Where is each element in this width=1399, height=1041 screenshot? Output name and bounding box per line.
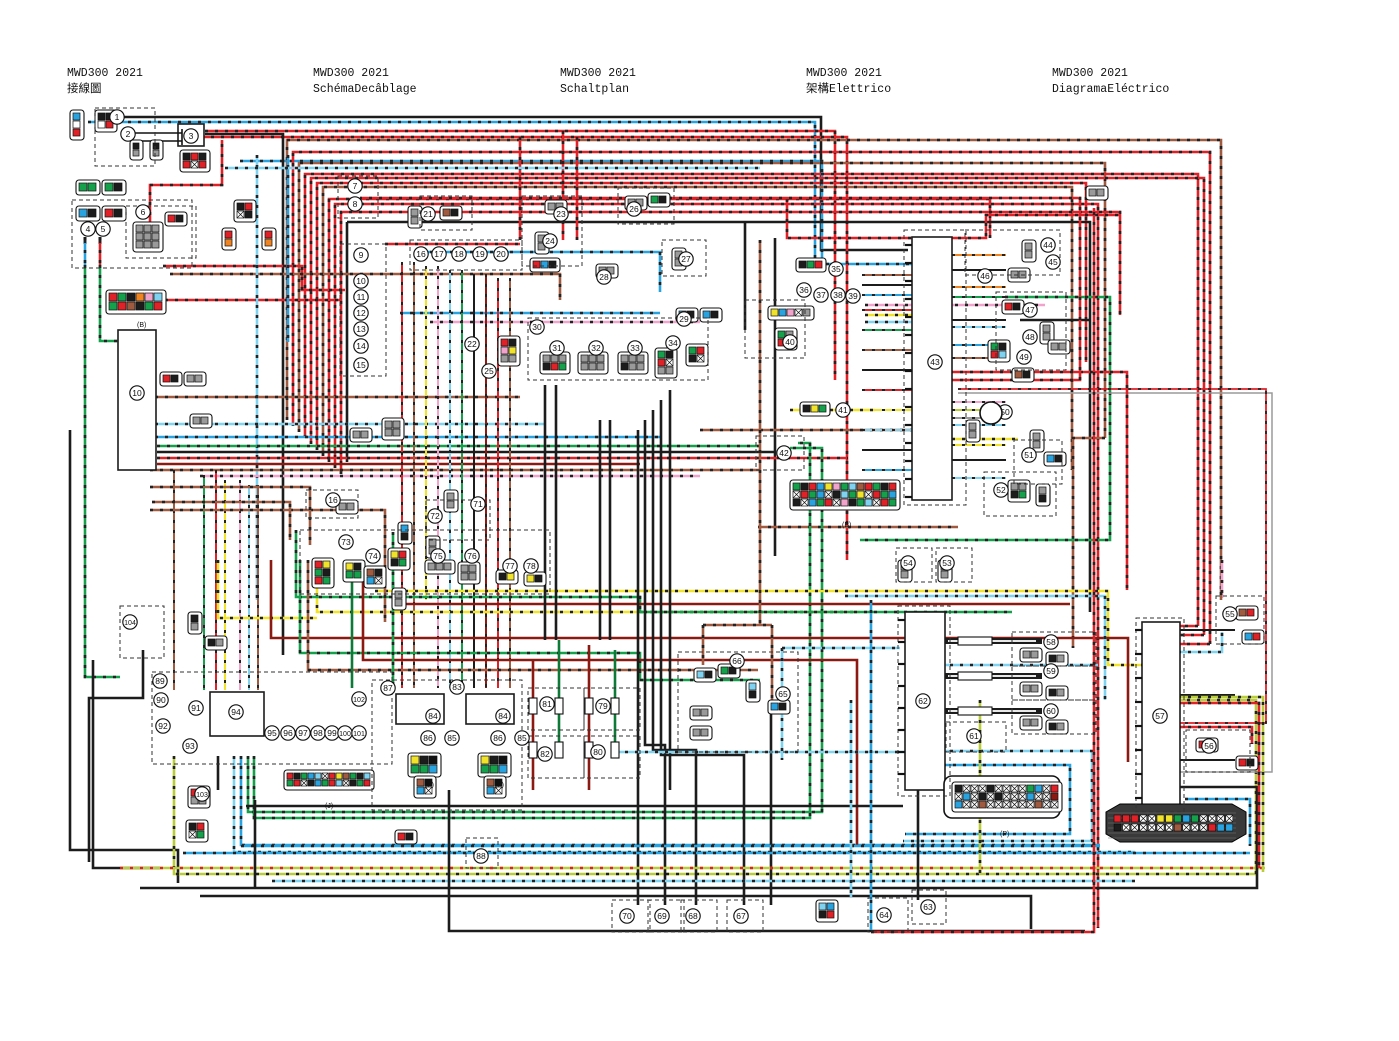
connector 10c <box>190 414 212 428</box>
wire <box>308 560 758 670</box>
connector under 83 <box>478 753 511 777</box>
component 85 right stack <box>515 731 529 745</box>
svg-text:(P): (P) <box>1000 831 1009 838</box>
connector 54a <box>898 560 912 582</box>
component 60 <box>1044 704 1058 718</box>
wire <box>347 222 1090 612</box>
svg-text:63: 63 <box>923 902 933 912</box>
wire <box>958 393 1272 772</box>
wire <box>85 265 120 677</box>
group 81 <box>528 688 584 730</box>
wire <box>203 475 205 690</box>
inline resistor symbol <box>958 637 992 645</box>
svg-text:44: 44 <box>1043 240 1053 250</box>
svg-text:78: 78 <box>526 561 536 571</box>
group 61 <box>946 722 1006 752</box>
component 84 right stack <box>496 709 510 723</box>
svg-text:86: 86 <box>493 733 503 743</box>
component 88 <box>474 849 488 863</box>
svg-text:67: 67 <box>736 911 746 921</box>
wire <box>862 409 912 411</box>
connector 104a <box>188 612 202 634</box>
connector 66c <box>690 706 712 720</box>
wire <box>461 270 463 688</box>
connector 4 <box>76 206 100 221</box>
group 44-45 <box>965 230 1060 275</box>
svg-text:62: 62 <box>918 696 928 706</box>
wire <box>88 122 912 264</box>
connector 52a <box>1008 480 1030 502</box>
component 52 <box>994 483 1008 497</box>
wire <box>205 134 283 655</box>
wire <box>413 262 415 688</box>
group 104 <box>120 606 164 658</box>
group 89-102 <box>152 672 392 764</box>
wire <box>562 131 565 240</box>
svg-text:57: 57 <box>1155 711 1165 721</box>
connector 103x <box>392 588 406 610</box>
svg-text:99: 99 <box>327 728 337 738</box>
component 69 <box>655 909 669 923</box>
component 96 <box>281 726 295 740</box>
ignition coil block 87 <box>396 694 444 724</box>
horn connector 2b <box>150 140 163 160</box>
connector 46b <box>1002 300 1024 314</box>
wire <box>781 648 784 760</box>
component 18 <box>452 247 466 261</box>
group 65-66 <box>678 652 798 752</box>
connector small under 83 <box>484 776 506 798</box>
connector 50a <box>966 420 980 442</box>
svg-text:21: 21 <box>423 209 433 219</box>
inline fuse symbol <box>529 742 537 758</box>
svg-text:32: 32 <box>591 343 601 353</box>
wire <box>952 326 1006 328</box>
svg-text:(F): (F) <box>425 782 434 789</box>
component 19 <box>473 247 487 261</box>
component 30 <box>530 320 544 334</box>
svg-text:103: 103 <box>196 792 208 799</box>
group 16-20 <box>410 240 522 270</box>
component 21 <box>421 207 435 221</box>
connector 59b <box>1046 686 1068 700</box>
wire <box>271 560 1128 762</box>
group 57 <box>1136 618 1184 812</box>
component 35 <box>829 262 843 276</box>
wire <box>205 131 835 380</box>
wire <box>948 710 1036 712</box>
component 20 <box>494 247 508 261</box>
connector under 87 <box>408 753 441 777</box>
wire <box>157 451 775 454</box>
horn connector 2a <box>130 140 143 160</box>
svg-text:48: 48 <box>1025 332 1035 342</box>
wire <box>558 640 561 745</box>
group 82 <box>528 736 584 778</box>
component 66 <box>730 654 744 668</box>
svg-text:16: 16 <box>328 495 338 505</box>
wire <box>473 274 475 688</box>
wire <box>241 845 1100 848</box>
connector J left-bottom <box>284 770 374 790</box>
wire <box>200 475 700 478</box>
wire <box>1178 694 1235 696</box>
block 57 left pin ticks <box>1135 630 1142 798</box>
component 95 <box>265 726 279 740</box>
wire <box>299 163 1105 438</box>
wire <box>661 400 744 905</box>
wire <box>653 410 696 905</box>
headlight block 3 <box>178 124 204 146</box>
svg-text:8: 8 <box>353 199 358 209</box>
svg-text:56: 56 <box>1204 741 1214 751</box>
component 31 <box>550 341 564 355</box>
connector 66x <box>382 418 404 440</box>
connector 23a <box>545 200 567 214</box>
component 97 <box>296 726 310 740</box>
svg-text:60: 60 <box>1046 706 1056 716</box>
connector 36 row <box>768 306 814 320</box>
wire <box>311 178 1204 635</box>
component 10 meter block label <box>130 386 144 400</box>
component 98 <box>311 726 325 740</box>
connector top-left 1 <box>70 110 84 140</box>
wire <box>865 304 1045 307</box>
wire <box>173 470 175 690</box>
wire <box>637 430 640 905</box>
connector 48a <box>988 340 1010 362</box>
group 71-72 <box>426 500 490 540</box>
diode 28 <box>596 264 618 278</box>
component 15 <box>354 358 368 372</box>
wire <box>952 319 1006 321</box>
wire <box>958 389 1266 723</box>
wire <box>1178 697 1263 872</box>
connector 72a <box>398 522 412 544</box>
svg-text:93: 93 <box>185 741 195 751</box>
component 75 <box>431 549 445 563</box>
relay 6 grid <box>133 222 163 252</box>
svg-text:42: 42 <box>779 448 789 458</box>
group 6 <box>126 206 196 258</box>
group 7-8 <box>338 176 378 218</box>
svg-text:MWD300 2021: MWD300 2021 <box>67 67 143 80</box>
svg-text:22: 22 <box>467 339 477 349</box>
group box 1-2 <box>95 108 155 166</box>
component 39 <box>846 289 860 303</box>
group 4-5-6 <box>72 200 192 268</box>
svg-text:14: 14 <box>356 341 366 351</box>
inline fuse symbol <box>529 698 537 714</box>
svg-text:75: 75 <box>433 551 443 561</box>
component 23 <box>554 207 568 221</box>
component 32 <box>589 341 603 355</box>
wire <box>1185 799 1250 846</box>
wire <box>425 266 427 600</box>
wire <box>293 152 1210 644</box>
wire <box>862 309 912 311</box>
component 62 <box>916 694 930 708</box>
wire <box>614 650 617 745</box>
connector 77a <box>496 570 518 584</box>
svg-text:7: 7 <box>353 181 358 191</box>
svg-text:SchémaDecâblage: SchémaDecâblage <box>313 83 417 96</box>
svg-text:(J): (J) <box>325 803 333 810</box>
connector 73a <box>312 558 334 588</box>
component 102 <box>352 692 366 706</box>
wire <box>375 591 1142 665</box>
connector 72b <box>426 536 440 558</box>
wire <box>940 372 1127 590</box>
connector 4-green <box>76 180 100 195</box>
component 14 <box>354 339 368 353</box>
wire <box>497 278 499 688</box>
group 27 <box>662 240 706 276</box>
component 16 main fuse <box>326 493 340 507</box>
group 54 <box>896 548 932 582</box>
svg-text:33: 33 <box>630 343 640 353</box>
connector 41a <box>800 402 830 416</box>
wire <box>865 314 912 317</box>
wire <box>940 664 1098 667</box>
block 62 left pin ticks <box>898 620 905 774</box>
inline resistor symbol <box>958 707 992 715</box>
wire <box>952 344 1006 346</box>
component 94 <box>229 705 243 719</box>
component 74 <box>366 549 380 563</box>
wire <box>952 409 1006 411</box>
svg-text:25: 25 <box>484 366 494 376</box>
wire <box>948 675 1036 677</box>
connector 34b <box>686 344 708 366</box>
wire <box>112 117 908 250</box>
component 45 <box>1046 255 1060 269</box>
wire <box>952 296 1006 298</box>
connector 78a <box>524 572 546 586</box>
wire <box>254 443 810 818</box>
wire <box>335 204 1098 928</box>
wire <box>287 155 290 342</box>
component 63 <box>921 900 935 914</box>
connector 65b <box>768 700 790 714</box>
group 62 <box>898 606 950 796</box>
svg-text:73: 73 <box>341 537 351 547</box>
wire <box>93 660 160 868</box>
wire <box>576 137 579 240</box>
wire <box>120 867 1265 870</box>
component 72 <box>428 509 442 523</box>
svg-text:40: 40 <box>785 337 795 347</box>
component 3 <box>184 129 198 143</box>
wire <box>609 420 612 640</box>
wire <box>862 449 912 451</box>
svg-text:82: 82 <box>540 749 550 759</box>
connector 66a <box>694 668 716 682</box>
svg-text:9: 9 <box>359 250 364 260</box>
svg-text:70: 70 <box>622 911 632 921</box>
svg-text:84: 84 <box>428 711 438 721</box>
svg-text:84: 84 <box>498 711 508 721</box>
group 67 <box>727 900 763 932</box>
component 87 <box>381 681 395 695</box>
svg-text:MWD300 2021: MWD300 2021 <box>1052 67 1128 80</box>
connector 10a <box>160 372 182 386</box>
svg-text:接線圖: 接線圖 <box>67 81 102 96</box>
connector 51a <box>1030 430 1044 452</box>
component 101 <box>352 726 366 740</box>
wire <box>782 647 900 650</box>
svg-text:80: 80 <box>593 747 603 757</box>
group 23-24 <box>522 196 582 266</box>
component 43 <box>928 355 942 369</box>
wire <box>790 409 875 412</box>
wire <box>771 625 774 700</box>
component 89 <box>153 674 167 688</box>
wire <box>234 756 1135 852</box>
connector 21b <box>440 206 462 220</box>
component 16 <box>414 247 428 261</box>
connector 74c <box>388 548 410 570</box>
connector top right <box>1086 186 1108 200</box>
group 60 <box>1012 700 1096 734</box>
wire <box>155 423 545 426</box>
wire <box>1178 629 1235 631</box>
group 87-83 <box>372 680 522 810</box>
group 58 <box>1012 632 1096 666</box>
wire <box>945 708 1042 714</box>
connector small under 87 <box>414 776 436 798</box>
wire <box>1073 438 1105 648</box>
wire <box>770 707 773 905</box>
group 88 <box>466 838 498 868</box>
svg-text:71: 71 <box>473 499 483 509</box>
connector B center <box>790 480 900 510</box>
connector 65a <box>746 680 760 702</box>
wire <box>945 638 1042 644</box>
wire <box>157 445 760 448</box>
svg-text:74: 74 <box>368 551 378 561</box>
component 100 <box>338 726 352 740</box>
svg-text:10: 10 <box>132 388 142 398</box>
connector 60b <box>1046 720 1068 734</box>
connector 66d <box>690 726 712 740</box>
component 1 <box>110 110 124 124</box>
component 86 right stack <box>491 731 505 745</box>
component 65 <box>776 687 790 701</box>
svg-text:64: 64 <box>879 910 889 920</box>
connector 49a <box>1012 368 1034 382</box>
connector 60x <box>350 428 372 442</box>
connector 29b <box>700 308 722 322</box>
svg-text:89: 89 <box>155 676 165 686</box>
wire <box>140 787 1257 888</box>
svg-text:96: 96 <box>283 728 293 738</box>
group 30-33 <box>528 318 708 380</box>
svg-text:36: 36 <box>799 285 809 295</box>
component 86 left stack <box>421 731 435 745</box>
wire <box>272 880 1135 883</box>
component 34 <box>666 336 680 350</box>
svg-text:15: 15 <box>356 360 366 370</box>
svg-text:51: 51 <box>1024 450 1034 460</box>
wire <box>317 183 1086 450</box>
wire <box>774 238 777 556</box>
connector P grid <box>952 782 1062 812</box>
wire <box>952 438 1018 441</box>
svg-text:65: 65 <box>778 689 788 699</box>
wire <box>952 424 1006 426</box>
svg-text:52: 52 <box>996 485 1006 495</box>
wire <box>1178 759 1235 761</box>
svg-text:27: 27 <box>681 254 691 264</box>
svg-text:46: 46 <box>980 271 990 281</box>
connector 74a <box>343 560 365 582</box>
component 41 <box>836 403 850 417</box>
group 21 <box>420 196 472 230</box>
component 28 <box>597 270 611 284</box>
wire <box>256 155 259 600</box>
wire <box>217 756 220 790</box>
connector near 6 <box>165 212 187 226</box>
meter block 10 <box>118 330 156 470</box>
svg-text:83: 83 <box>452 682 462 692</box>
svg-text:16: 16 <box>416 249 426 259</box>
wire <box>317 565 860 612</box>
svg-text:49: 49 <box>1019 352 1029 362</box>
group 9-15 <box>340 244 386 376</box>
wire <box>346 222 349 462</box>
wire <box>862 274 912 276</box>
svg-text:87: 87 <box>383 683 393 693</box>
svg-text:98: 98 <box>313 728 323 738</box>
connector 55a <box>1236 606 1258 620</box>
svg-text:41: 41 <box>838 405 848 415</box>
component 71 <box>471 497 485 511</box>
connector 5 <box>102 206 126 221</box>
wire <box>395 603 1070 606</box>
connector P housing <box>944 776 1060 818</box>
wire <box>400 312 660 315</box>
connector 30a <box>498 336 520 366</box>
svg-text:5: 5 <box>101 224 106 234</box>
component 42 <box>777 446 791 460</box>
connector B left <box>106 290 166 314</box>
component 38 <box>831 288 845 302</box>
svg-text:(B): (B) <box>137 322 146 329</box>
svg-text:91: 91 <box>191 703 201 713</box>
connector 44a <box>1022 240 1036 262</box>
component 76 <box>465 549 479 563</box>
wire <box>862 389 912 391</box>
inline fuse symbol <box>555 742 563 758</box>
wire <box>420 252 660 292</box>
component 27 <box>679 252 693 266</box>
connector below 3 <box>180 150 210 172</box>
component 50 circle symbol <box>980 402 1002 424</box>
wire <box>200 896 1031 929</box>
wire <box>1177 810 1180 816</box>
ECU 43 left pin ticks <box>905 245 912 497</box>
component 2 <box>121 127 135 141</box>
wire <box>392 532 395 688</box>
wire <box>163 266 345 290</box>
switch 33 <box>618 352 648 374</box>
component 13 <box>354 322 368 336</box>
svg-text:85: 85 <box>447 733 457 743</box>
component 104 <box>123 615 137 629</box>
component 50 <box>998 405 1012 419</box>
wire <box>183 852 1250 855</box>
